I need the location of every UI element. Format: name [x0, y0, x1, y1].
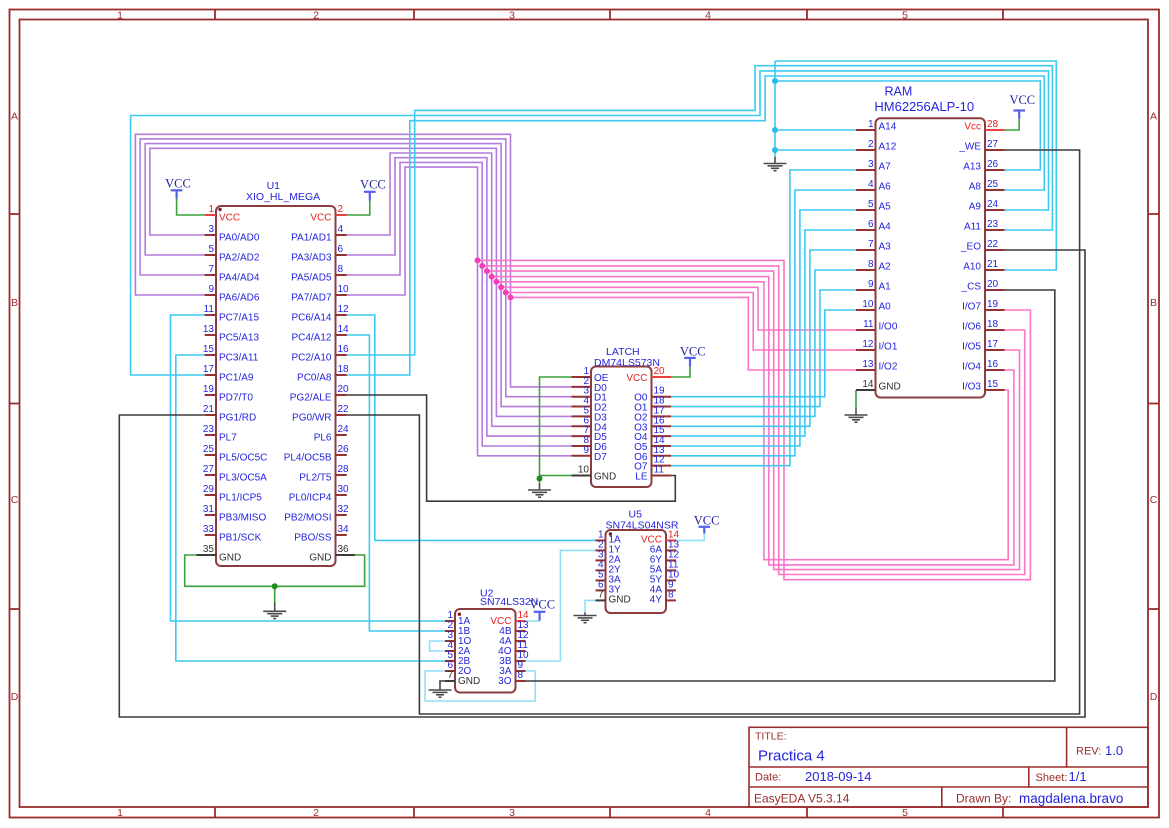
svg-text:I/O2: I/O2	[879, 362, 898, 373]
wire LATCH.O2 to RAM.A2 (pin 8)	[671, 270, 856, 416]
IC RAM pin 27 _WE	[985, 149, 1005, 151]
svg-text:PL2/T5: PL2/T5	[299, 472, 332, 483]
svg-text:11: 11	[204, 304, 215, 315]
IC RAM pin 5 A5	[856, 209, 876, 211]
wire RAM.28 Vcc hook	[1005, 119, 1020, 131]
wire data branch to RAM.I/O5 (pin 17)	[487, 271, 1020, 569]
svg-text:26: 26	[338, 444, 350, 455]
svg-text:PA1/AD1: PA1/AD1	[291, 232, 332, 243]
IC U1 pin 32 PB2/MOSI	[336, 514, 347, 516]
svg-text:magdalena.bravo: magdalena.bravo	[1019, 791, 1123, 806]
svg-text:PA6/AD6: PA6/AD6	[219, 292, 260, 303]
svg-text:XIO_HL_MEGA: XIO_HL_MEGA	[246, 191, 320, 203]
svg-text:PL1/ICP5: PL1/ICP5	[219, 492, 262, 503]
IC U1 pin 33 PB1/SCK	[205, 534, 216, 536]
svg-text:LE: LE	[635, 472, 648, 483]
IC U2 pin 14 VCC	[516, 620, 526, 622]
IC RAM pin 7 A3	[856, 249, 876, 251]
wire U2.3B to U5.1Y	[526, 550, 596, 661]
svg-text:28: 28	[987, 119, 999, 130]
VCC symbol U2	[534, 612, 546, 621]
IC U1 pin 20 PG2/ALE	[336, 394, 347, 396]
svg-text:A3: A3	[879, 242, 892, 253]
wire data branch to RAM.I/O0 (pin 11)	[501, 287, 856, 330]
svg-text:4: 4	[705, 10, 711, 22]
svg-text:I/O7: I/O7	[962, 302, 981, 313]
IC U1 pin 9 PA6/AD6	[205, 294, 216, 296]
svg-text:4: 4	[338, 224, 344, 235]
IC RAM pin 18 I/O6	[985, 329, 1005, 331]
wire U5.14 VCC to power symbol	[676, 534, 704, 541]
svg-text:1.0: 1.0	[1105, 743, 1123, 758]
IC RAM pin 26 A13	[985, 169, 1005, 171]
IC U1 pin 11 PC7/A15	[205, 314, 216, 316]
IC U2 body	[455, 609, 516, 693]
wire data branch to RAM.I/O6 (pin 18)	[482, 266, 1024, 575]
svg-text:PBO/SS: PBO/SS	[294, 532, 332, 543]
svg-text:PC7/A15: PC7/A15	[219, 312, 259, 323]
IC U1 pin 3 PA0/AD0	[205, 234, 216, 236]
svg-text:27: 27	[987, 139, 999, 150]
IC LATCH pin 2 D0	[572, 386, 592, 388]
svg-text:GND: GND	[879, 382, 901, 393]
svg-text:3: 3	[509, 10, 515, 22]
svg-text:VCC: VCC	[165, 177, 191, 191]
IC LATCH pin 15 O4	[652, 435, 672, 437]
IC U1 pin 29 PL1/ICP5	[205, 494, 216, 496]
svg-text:11: 11	[654, 465, 665, 476]
frame right tick y=214	[1148, 213, 1159, 215]
IC U2 pin 3 1O	[445, 640, 455, 642]
svg-text:A14: A14	[879, 122, 897, 133]
IC U5 pin 11 5A	[666, 569, 676, 571]
svg-text:14: 14	[862, 379, 874, 390]
IC U1 pin 34 PBO/SS	[336, 534, 347, 536]
IC U1 pin 30 PL0/ICP4	[336, 494, 347, 496]
svg-text:20: 20	[338, 384, 350, 395]
svg-text:21: 21	[203, 404, 215, 415]
wire data branch to RAM.I/O2 (pin 13)	[511, 297, 857, 370]
IC LATCH pin 4 D2	[572, 406, 592, 408]
IC RAM pin 20 _CS	[985, 289, 1005, 291]
svg-text:A1: A1	[879, 282, 892, 293]
svg-text:PG1/RD: PG1/RD	[219, 412, 256, 423]
svg-text:8: 8	[668, 589, 674, 600]
IC RAM pin 24 A9	[985, 209, 1005, 211]
IC U5 pin 7 GND	[596, 599, 606, 601]
svg-text:GND: GND	[219, 552, 241, 563]
frame bottom tick x=610	[609, 807, 611, 818]
ground at U1	[263, 603, 286, 619]
svg-text:22: 22	[987, 239, 999, 250]
svg-text:GND: GND	[458, 676, 480, 687]
svg-text:15: 15	[203, 344, 215, 355]
ground at U2	[429, 684, 452, 698]
svg-text:3: 3	[509, 807, 515, 819]
IC U1 pin 6 PA3/AD3	[336, 254, 347, 256]
IC U2 pin 13 4B	[516, 630, 526, 632]
title block row divider 2	[749, 786, 1148, 788]
svg-text:Sheet:: Sheet:	[1036, 772, 1068, 784]
IC RAM pin 8 A2	[856, 269, 876, 271]
IC U2 pin 9 3A	[516, 670, 526, 672]
IC U1 pin 14 PC4/A12	[336, 334, 347, 336]
IC RAM pin 9 A1	[856, 289, 876, 291]
svg-text:21: 21	[987, 259, 999, 270]
VCC symbol U1 pin2	[364, 192, 376, 201]
wire LATCH.20 VCC hook	[671, 367, 690, 378]
svg-text:8: 8	[338, 264, 344, 275]
svg-text:12: 12	[338, 304, 350, 315]
svg-text:I/O3: I/O3	[962, 382, 981, 393]
svg-text:A5: A5	[879, 202, 892, 213]
svg-text:24: 24	[987, 199, 999, 210]
svg-text:1: 1	[117, 10, 123, 22]
IC U2 pin 10 3B	[516, 660, 526, 662]
wire RAM.A12 (pin 2) to grounded net	[775, 149, 856, 151]
IC U2 pin 5 2B	[445, 660, 455, 662]
wire AD0 U1.3 to LATCH.D3	[150, 148, 572, 416]
IC RAM pin 11 I/O0	[856, 329, 876, 331]
IC RAM pin 28 Vcc	[985, 129, 1005, 131]
svg-text:4Y: 4Y	[650, 595, 663, 606]
svg-text:2: 2	[313, 807, 319, 819]
frame left tick y=609	[10, 608, 20, 610]
wire AD5 U1.8 to LATCH.D6	[347, 162, 572, 446]
IC RAM pin 14 GND	[856, 389, 876, 391]
IC U5 pin 4 2Y	[596, 569, 606, 571]
wire U1 GND loop pins 35/36	[185, 555, 365, 586]
frame top tick x=414	[413, 10, 415, 20]
svg-text:17: 17	[203, 364, 215, 375]
svg-text:PA3/AD3: PA3/AD3	[291, 252, 332, 263]
svg-text:VCC: VCC	[1009, 93, 1035, 107]
svg-text:SN74LS32N: SN74LS32N	[480, 596, 538, 608]
svg-text:34: 34	[338, 524, 350, 535]
svg-text:VCC: VCC	[694, 514, 720, 528]
svg-text:10: 10	[862, 299, 874, 310]
svg-text:16: 16	[338, 344, 350, 355]
svg-text:PD7/T0: PD7/T0	[219, 392, 253, 403]
svg-text:1/1: 1/1	[1069, 769, 1087, 784]
IC U2 pin 4 2A	[445, 650, 455, 652]
IC RAM pin 4 A6	[856, 189, 876, 191]
svg-text:5: 5	[902, 807, 908, 819]
IC LATCH pin 6 D4	[572, 425, 592, 427]
wire LATCH.O7 to RAM.A7 (pin 3)	[671, 170, 856, 466]
svg-text:HM62256ALP-10: HM62256ALP-10	[874, 99, 974, 114]
wire RAM.14 GND hook	[855, 390, 857, 408]
svg-text:A12: A12	[879, 142, 897, 153]
svg-text:36: 36	[338, 544, 350, 555]
svg-text:B: B	[11, 297, 18, 309]
svg-text:A13: A13	[963, 162, 981, 173]
IC U2 pin 8 3O	[516, 680, 526, 682]
IC U5 pin 12 6Y	[666, 559, 676, 561]
svg-text:I/O6: I/O6	[962, 322, 981, 333]
svg-text:8: 8	[518, 670, 524, 681]
IC LATCH pin 13 O6	[652, 455, 672, 457]
IC U5 pin 1 1A	[596, 539, 606, 541]
IC RAM pin 23 A11	[985, 229, 1005, 231]
IC U5 pin 8 4Y	[666, 599, 676, 601]
IC U5 body	[606, 530, 667, 613]
wire data branch to RAM.I/O4 (pin 16)	[492, 277, 1014, 565]
frame top tick x=215	[214, 10, 216, 20]
svg-text:32: 32	[338, 504, 350, 515]
frame bottom tick x=414	[413, 807, 415, 818]
svg-text:PC4/A12: PC4/A12	[291, 332, 331, 343]
IC U1 pin 25 PL5/OC5C	[205, 454, 216, 456]
svg-text:29: 29	[203, 484, 215, 495]
wire U2.1O to U2.2A loop	[430, 641, 445, 651]
svg-text:PL5/OC5C: PL5/OC5C	[219, 452, 267, 463]
svg-text:25: 25	[203, 444, 215, 455]
IC U1 pin 2 VCC	[336, 214, 347, 216]
svg-text:PG2/ALE: PG2/ALE	[290, 392, 332, 403]
wire U2.14 VCC to power symbol	[526, 613, 540, 622]
wire LATCH.GND to ground rail	[540, 475, 572, 477]
ground at LATCH	[528, 484, 551, 498]
frame bottom tick x=807	[806, 807, 808, 818]
IC RAM pin 22 _EO	[985, 249, 1005, 251]
IC U5 pin 5 3A	[596, 579, 606, 581]
wire LATCH.O3 to RAM.A3 (pin 7)	[671, 250, 856, 426]
svg-text:1: 1	[868, 119, 874, 130]
IC U1 pin 27 PL3/OC5A	[205, 474, 216, 476]
wire U1.1 VCC hook	[177, 199, 205, 216]
IC RAM pin 2 A12	[856, 149, 876, 151]
wire A12 U1.14 to U2.1B	[347, 335, 445, 631]
IC U1 pin 21 PG1/RD	[205, 414, 216, 416]
svg-text:5: 5	[902, 10, 908, 22]
svg-text:28: 28	[338, 464, 350, 475]
svg-text:GND: GND	[609, 595, 631, 606]
wire A10 U1.16 to RAM.A11 (pin 23)	[347, 66, 1053, 355]
IC U1 body	[216, 206, 336, 566]
IC U1 pin 13 PC5/A13	[205, 334, 216, 336]
wire LATCH.O5 to RAM.A5 (pin 5)	[671, 210, 856, 446]
svg-text:I/O5: I/O5	[962, 342, 981, 353]
IC LATCH pin 17 O2	[652, 415, 672, 417]
svg-text:PC1/A9: PC1/A9	[219, 372, 254, 383]
svg-text:14: 14	[338, 324, 350, 335]
IC RAM pin 12 I/O1	[856, 349, 876, 351]
IC U2 pin-1 marker	[458, 613, 461, 616]
IC U5 pin 13 6A	[666, 549, 676, 551]
wire AD1 U1.4 to LATCH.D4	[347, 153, 572, 426]
wire RD U1.21 to RAM._EO (pin 22)	[119, 250, 1085, 717]
wire AD4 U1.7 to LATCH.D1	[140, 139, 571, 397]
IC RAM pin 19 I/O7	[985, 309, 1005, 311]
VCC symbol RAM	[1013, 111, 1025, 119]
IC LATCH pin 12 O7	[652, 465, 672, 467]
IC LATCH pin 20 VCC	[652, 376, 672, 378]
svg-text:A10: A10	[963, 262, 981, 273]
wire A14 U1.12 to U5.1A	[347, 315, 596, 540]
svg-text:17: 17	[987, 339, 999, 350]
IC U1 pin 36 GND	[336, 554, 356, 556]
svg-text:19: 19	[203, 384, 215, 395]
IC LATCH pin 8 D6	[572, 445, 592, 447]
wire AD2 U1.5 to LATCH.D2	[145, 144, 571, 407]
svg-text:18: 18	[338, 364, 350, 375]
wire grounded net vertical at x=775	[774, 61, 776, 158]
IC U2 pin 1 1A	[445, 620, 455, 622]
IC LATCH pin 11 LE	[652, 475, 672, 477]
IC LATCH pin 5 D3	[572, 415, 592, 417]
svg-text:5: 5	[208, 244, 214, 255]
wire U2.7 GND hook	[440, 681, 445, 684]
IC U5 pin 6 3Y	[596, 589, 606, 591]
svg-text:PL4/OC5B: PL4/OC5B	[284, 452, 332, 463]
IC U5 pin 14 VCC	[666, 539, 676, 541]
wire AD6 U1.9 to LATCH.D0	[135, 134, 571, 387]
frame right tick y=403.5	[1148, 403, 1159, 405]
svg-text:25: 25	[987, 179, 999, 190]
IC LATCH pin 18 O1	[652, 406, 672, 408]
svg-text:Drawn By:: Drawn By:	[956, 792, 1011, 806]
title block outline	[749, 727, 1148, 807]
IC RAM pin 1 A14	[856, 129, 876, 131]
svg-text:13: 13	[203, 324, 215, 335]
svg-text:22: 22	[338, 404, 350, 415]
frame bottom tick x=1003	[1002, 807, 1004, 818]
IC U1 pin 4 PA1/AD1	[336, 234, 347, 236]
svg-text:I/O4: I/O4	[962, 362, 981, 373]
ground at U5	[574, 613, 597, 623]
svg-text:2018-09-14: 2018-09-14	[805, 769, 872, 784]
wire data branch to RAM.I/O7 (pin 19)	[478, 260, 1031, 579]
wire grounded net branch to RAM.A13 (pin 26)	[775, 81, 1040, 170]
IC RAM pin 25 A8	[985, 189, 1005, 191]
title block REV cell divider	[1066, 727, 1068, 767]
IC U1 pin 28 PL2/T5	[336, 474, 347, 476]
svg-text:35: 35	[203, 544, 215, 555]
svg-text:4: 4	[705, 807, 711, 819]
wire U5.7 GND to ground	[585, 600, 596, 612]
wire LATCH.O6 to RAM.A6 (pin 4)	[671, 190, 856, 456]
svg-text:23: 23	[203, 424, 215, 435]
svg-text:_EO: _EO	[960, 242, 981, 253]
svg-text:6: 6	[338, 244, 344, 255]
svg-text:3: 3	[208, 224, 214, 235]
IC U1 pin 16 PC2/A10	[336, 354, 347, 356]
svg-text:9: 9	[868, 279, 874, 290]
svg-text:2: 2	[313, 10, 319, 22]
junction dot data branch 7	[508, 294, 514, 300]
svg-text:A2: A2	[879, 262, 892, 273]
svg-text:Date:: Date:	[755, 772, 781, 784]
svg-text:23: 23	[987, 219, 999, 230]
svg-text:7: 7	[598, 589, 604, 600]
IC U1 pin 7 PA4/AD4	[205, 274, 216, 276]
title block row divider 1	[749, 766, 1148, 768]
IC LATCH pin 10 GND	[572, 475, 592, 477]
svg-text:PC0/A8: PC0/A8	[297, 372, 332, 383]
wire U2.3O to RAM._CS (pin 20)	[526, 290, 1055, 681]
svg-text:PA4/AD4: PA4/AD4	[219, 272, 260, 283]
svg-text:2: 2	[338, 204, 344, 215]
wire LATCH.O4 to RAM.A4 (pin 6)	[671, 230, 856, 436]
wire LATCH ground stem	[539, 476, 541, 484]
svg-text:A9: A9	[969, 202, 982, 213]
svg-text:A0: A0	[879, 302, 892, 313]
wire A9 U1.17 to RAM.A9 (pin 24)	[131, 71, 1049, 375]
wire LATCH.OE to ground rail	[540, 377, 572, 476]
svg-text:I/O0: I/O0	[879, 322, 898, 333]
IC U1 pin 23 PL7	[205, 434, 216, 436]
svg-text:PL6: PL6	[314, 432, 332, 443]
wire U1.2 VCC hook	[347, 201, 370, 216]
VCC symbol U1 pin1	[171, 190, 183, 198]
svg-text:C: C	[11, 494, 19, 506]
junction dot data branch 0	[475, 257, 481, 263]
svg-text:PC3/A11: PC3/A11	[219, 352, 259, 363]
IC U2 pin 7 GND	[445, 680, 455, 682]
IC LATCH pin 7 D5	[572, 435, 592, 437]
svg-text:REV:: REV:	[1076, 746, 1101, 758]
IC U1 pin 1 VCC	[205, 214, 216, 216]
VCC symbol LATCH	[684, 358, 696, 367]
IC U2 pin 11 4O	[516, 650, 526, 652]
svg-text:GND: GND	[309, 552, 331, 563]
junction dot data branch 1	[479, 263, 485, 269]
svg-text:10: 10	[338, 284, 350, 295]
IC U5 pin 2 1Y	[596, 549, 606, 551]
svg-text:30: 30	[338, 484, 350, 495]
svg-text:18: 18	[987, 319, 999, 330]
wire data branch to RAM.I/O1 (pin 12)	[506, 293, 856, 351]
IC LATCH pin 19 O0	[652, 396, 672, 398]
svg-text:I/O1: I/O1	[879, 342, 898, 353]
IC U1 pin 17 PC1/A9	[205, 374, 216, 376]
IC U1 pin 31 PB3/MISO	[205, 514, 216, 516]
wire U2.2O to U2.3A loop	[425, 671, 535, 701]
svg-text:PA7/AD7: PA7/AD7	[291, 292, 332, 303]
IC LATCH pin 1 OE	[572, 376, 592, 378]
svg-text:A6: A6	[879, 182, 892, 193]
IC U1 pin 22 PG0/WR	[336, 414, 347, 416]
IC U5 pin 9 4A	[666, 589, 676, 591]
svg-text:B: B	[1150, 297, 1157, 309]
junction dot data branch 4	[493, 279, 499, 285]
svg-text:31: 31	[203, 504, 215, 515]
IC LATCH body	[591, 367, 652, 488]
svg-text:A8: A8	[969, 182, 982, 193]
svg-text:PA0/AD0: PA0/AD0	[219, 232, 260, 243]
svg-text:_CS: _CS	[961, 282, 982, 293]
svg-text:15: 15	[987, 379, 999, 390]
junction dot data branch 3	[489, 274, 495, 280]
wire A8 U1.18 to RAM.A8 (pin 25)	[347, 76, 1045, 375]
svg-text:PC5/A13: PC5/A13	[219, 332, 259, 343]
IC U5 pin 3 2A	[596, 559, 606, 561]
frame top tick x=1003	[1002, 10, 1004, 20]
svg-text:_WE: _WE	[958, 142, 981, 153]
svg-text:PC2/A10: PC2/A10	[291, 352, 331, 363]
IC RAM pin 16 I/O4	[985, 369, 1005, 371]
svg-text:1: 1	[208, 204, 214, 215]
junction dot grounded net 0	[772, 78, 778, 84]
svg-text:24: 24	[338, 424, 350, 435]
svg-text:D: D	[11, 691, 19, 703]
svg-text:GND: GND	[594, 472, 616, 483]
svg-text:PL3/OC5A: PL3/OC5A	[219, 472, 267, 483]
svg-text:1: 1	[117, 807, 123, 819]
IC RAM pin 21 A10	[985, 269, 1005, 271]
svg-text:Practica 4: Practica 4	[758, 748, 825, 765]
